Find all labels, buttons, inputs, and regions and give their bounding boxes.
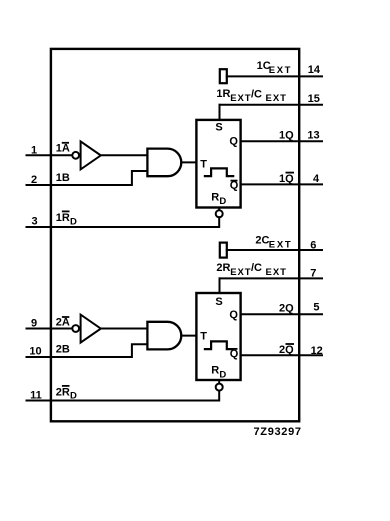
net label 2CEXT [255,235,292,251]
output label 2Q-bar [279,344,294,356]
svg-text:Q: Q [229,309,238,321]
svg-text:14: 14 [308,64,321,76]
svg-text:D: D [219,369,226,380]
svg-text:R: R [211,191,219,203]
svg-text:4: 4 [313,173,320,185]
capacitor 1CEXT symbol [220,69,227,83]
svg-text:T: T [200,159,207,171]
svg-text:2A: 2A [56,317,70,329]
net label 1CEXT [257,60,292,76]
input label 1RD-bar [56,211,77,227]
svg-text:Q: Q [229,136,238,148]
svg-text:13: 13 [307,129,319,141]
U2 RD bubble [216,384,223,391]
svg-text:2Q: 2Q [279,303,294,315]
inverter U2A triangle [81,315,101,343]
svg-text:2B: 2B [56,343,70,355]
svg-text:2: 2 [31,174,37,186]
svg-text:S: S [215,122,222,134]
svg-text:EXT: EXT [269,239,293,250]
svg-text:2R: 2R [216,262,230,274]
svg-text:9: 9 [31,317,37,329]
wire pin 2 (1B input, step to G1) [27,171,148,185]
wire U2 S input vertical [219,278,221,293]
svg-text:EXT: EXT [230,267,251,278]
input label 2A-bar [56,317,70,329]
svg-text:D: D [70,216,77,227]
svg-text:10: 10 [29,346,41,358]
U1 pin label RD [211,191,226,207]
wire pin 3 (1RD-bar input) [27,217,220,227]
output label 1Q-bar [279,173,294,185]
monostable U1 block [196,120,240,208]
svg-text:Q: Q [230,348,239,360]
wire pin 9 (2A-bar input) [27,328,73,330]
net label 1REXT/CEXT [216,88,287,104]
svg-text:15: 15 [308,93,320,105]
inverter bubble (1A) [72,152,79,159]
U2 pin label Q-bar [230,348,239,360]
wire G2 output to U2 T input [181,335,196,337]
wire inverter output to AND gate G1 [101,154,147,156]
wire pin 14 (1CEXT) [227,75,322,77]
svg-text:1R: 1R [56,212,70,224]
wire pin 1 (1A-bar input) [27,154,73,156]
inverter U1A triangle [81,141,101,169]
svg-text:1Q: 1Q [279,129,294,141]
wire pin 12 (2Q-bar output) [241,354,322,356]
svg-text:S: S [215,296,222,308]
wire inverter output to AND gate G2 [101,328,147,330]
outer boundary box [51,49,299,421]
svg-text:D: D [70,390,77,401]
wire pin 4 (1Q-bar output) [241,183,322,185]
U2 pulse symbol [205,341,233,349]
svg-text:2C: 2C [255,235,269,247]
svg-text:1Q: 1Q [279,173,294,185]
svg-text:1B: 1B [56,172,70,184]
svg-text:1A: 1A [56,143,70,155]
net label 2REXT/CEXT [216,262,287,278]
U1 RD connector stub [218,208,220,211]
AND gate G1 [147,149,181,177]
svg-text:3: 3 [31,216,37,228]
input label 2RD-bar [56,386,77,401]
svg-text:/C: /C [251,88,262,100]
svg-text:12: 12 [311,345,323,357]
U1 RD bubble [216,210,223,217]
svg-text:EXT: EXT [266,267,287,278]
AND gate G2 [147,322,181,350]
wire pin 15 (1REXT/CEXT) [220,104,323,106]
svg-text:2R: 2R [56,387,70,399]
wire G1 output to U1 T input [181,161,196,163]
svg-text:11: 11 [30,389,42,401]
wire U1 S input vertical [219,105,221,120]
svg-text:T: T [200,331,207,343]
wire pin 13 (1Q output) [241,140,322,142]
svg-text:EXT: EXT [266,93,287,104]
svg-text:2Q: 2Q [279,344,294,356]
capacitor 2CEXT symbol [220,243,227,258]
wire pin 5 (2Q output) [241,313,322,315]
svg-text:1: 1 [31,144,37,156]
wire pin 11 (2RD-bar input) [27,391,220,401]
U2 pin label RD [211,365,226,381]
svg-text:EXT: EXT [269,65,292,76]
svg-text:7: 7 [310,267,316,279]
svg-text:6: 6 [310,239,316,251]
svg-text:7Z93297: 7Z93297 [254,426,302,438]
inverter bubble (2A) [72,325,79,332]
svg-text:D: D [219,196,226,207]
svg-text:5: 5 [313,302,319,314]
svg-text:1R: 1R [216,88,230,100]
svg-text:R: R [211,365,219,377]
input label 1A-bar [56,143,70,155]
U1 pin label Q-bar [230,180,239,192]
wire pin 6 (2CEXT) [227,249,322,251]
monostable U2 block [196,293,240,380]
svg-text:EXT: EXT [230,93,251,104]
wire pin 7 (2REXT/CEXT) [220,277,323,279]
U2 RD connector stub [218,380,220,384]
U1 pulse symbol [205,168,233,176]
wire pin 10 (2B input, step to G2) [27,344,148,357]
svg-text:/C: /C [251,262,262,274]
